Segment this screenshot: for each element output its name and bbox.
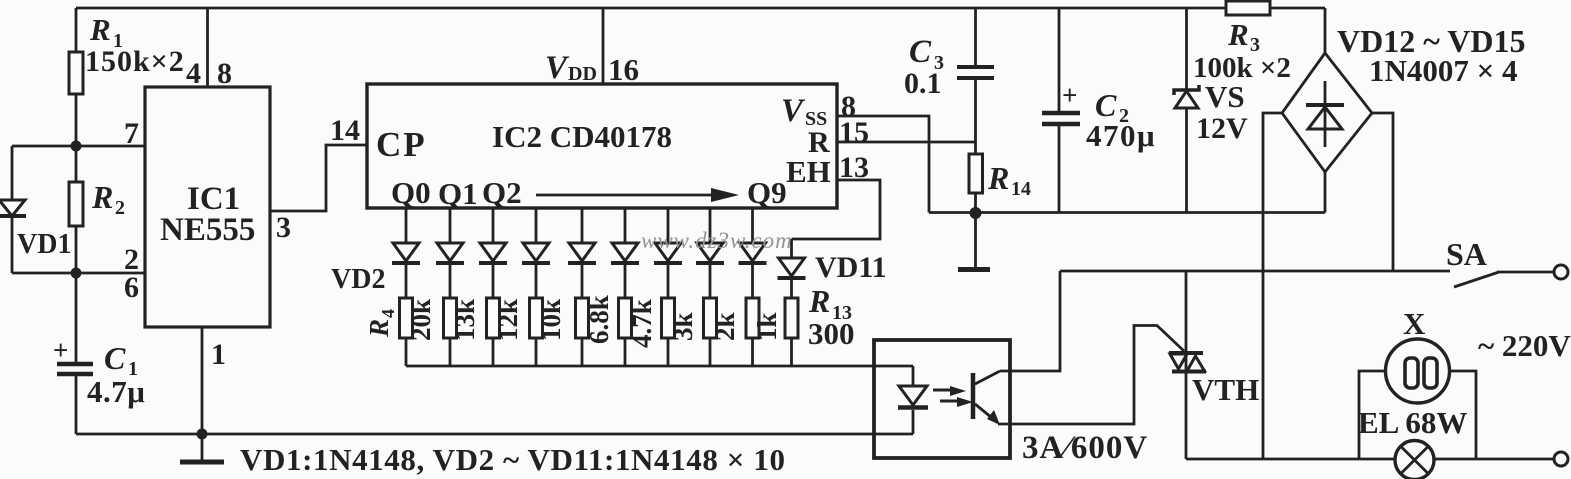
diode VD3 xyxy=(437,243,463,261)
wire VD1 cathode lead xyxy=(11,218,14,273)
wire resistor bottom rail xyxy=(406,365,913,368)
wire C2 bottom lead xyxy=(1058,126,1061,213)
svg-text:R: R xyxy=(91,179,113,215)
svg-text:13: 13 xyxy=(839,151,869,184)
node ground junction xyxy=(197,429,208,440)
svg-text:20k: 20k xyxy=(406,299,436,341)
wire pin15 to R14 xyxy=(837,141,976,144)
wire C1 bottom lead xyxy=(75,376,78,434)
wire VS bottom lead xyxy=(1185,108,1188,213)
svg-text:IC2 CD40178: IC2 CD40178 xyxy=(492,119,672,154)
label 10k xyxy=(536,299,566,341)
wire VD11 top lead xyxy=(790,239,793,258)
wire Q8 stub xyxy=(751,208,754,243)
svg-text:DD: DD xyxy=(568,63,597,85)
svg-text:+: + xyxy=(53,335,68,365)
resistor 13k xyxy=(444,298,457,338)
op-amp IC1 box xyxy=(145,87,270,327)
wire C1 top lead xyxy=(75,273,78,362)
wire pins 4 8 stub xyxy=(206,8,209,87)
svg-text:VD1:1N4148, VD2 ~ VD11:1N4148: VD1:1N4148, VD2 ~ VD11:1N4148 × 10 xyxy=(240,442,786,477)
diode VD2 xyxy=(393,243,419,261)
svg-text:V: V xyxy=(545,50,570,86)
svg-text:300: 300 xyxy=(808,316,855,351)
node mid ground junction xyxy=(970,207,982,219)
svg-text:VD11: VD11 xyxy=(815,251,887,284)
resistor R2 xyxy=(69,182,83,226)
svg-text:VTH: VTH xyxy=(1192,372,1259,407)
zener VS xyxy=(1174,85,1199,95)
svg-text:100k ×2: 100k ×2 xyxy=(1193,52,1291,84)
label 1k xyxy=(752,312,782,341)
svg-text:6: 6 xyxy=(124,271,139,304)
wire Q0 stub xyxy=(405,208,408,243)
bridge VD12-VD15 diamond xyxy=(1282,53,1372,172)
node pin7 junction xyxy=(71,141,82,152)
capacitor C1 xyxy=(57,362,93,367)
label 12k xyxy=(493,299,523,341)
node pin2-6 junction xyxy=(71,268,82,279)
svg-text:16: 16 xyxy=(608,52,639,87)
svg-text:C: C xyxy=(104,340,126,376)
wire Q2 stub xyxy=(492,208,495,243)
diode VD7 xyxy=(612,243,638,261)
capacitor C3 xyxy=(957,65,994,69)
svg-text:NE555: NE555 xyxy=(160,212,255,248)
wire pin3 to CP xyxy=(270,145,367,211)
wire pin1 lead xyxy=(201,327,204,434)
resistor 10k xyxy=(530,298,543,338)
wire socket right xyxy=(1450,371,1477,459)
wire C3 to R14 xyxy=(974,80,977,154)
wire pin8 VSS to ground rail xyxy=(837,116,929,213)
wire Q7 stub xyxy=(709,208,712,243)
wire R2 top lead xyxy=(75,146,78,182)
IC U2 CD40178 box xyxy=(367,84,837,208)
svg-text:4.7k: 4.7k xyxy=(627,299,657,348)
wire VD1 anode lead xyxy=(11,146,14,200)
wire collector out xyxy=(1000,271,1060,371)
svg-text:3: 3 xyxy=(276,211,291,244)
svg-text:2k: 2k xyxy=(710,312,740,341)
svg-text:Q0: Q0 xyxy=(391,175,431,210)
wire VDD stub pin16 xyxy=(602,8,605,84)
wire R2 bottom lead xyxy=(75,226,78,273)
resistor 4.7k xyxy=(619,298,632,338)
svg-text:1: 1 xyxy=(211,338,226,371)
svg-text:12V: 12V xyxy=(1196,112,1248,145)
wire R14 bottom lead xyxy=(974,193,977,213)
wire bottom right xyxy=(1186,458,1395,461)
resistor R3 xyxy=(1226,1,1270,15)
svg-text:15: 15 xyxy=(839,116,869,149)
wire bridge bottom lead xyxy=(1324,172,1327,213)
switch SA xyxy=(1454,272,1499,287)
svg-text:Q2: Q2 xyxy=(482,175,522,210)
lamp EL xyxy=(1395,441,1434,479)
svg-text:X: X xyxy=(1403,306,1426,341)
opto light arrows xyxy=(933,389,956,392)
resistor 6.8k xyxy=(576,298,589,338)
ground left xyxy=(201,434,204,460)
svg-text:R: R xyxy=(987,160,1009,196)
wire Q1 stub xyxy=(449,208,452,243)
svg-text:EL 68W: EL 68W xyxy=(1358,405,1467,440)
label 13k xyxy=(450,299,480,341)
diode VD8 xyxy=(655,243,681,261)
wire C2 top lead xyxy=(1058,8,1061,111)
svg-text:VD1: VD1 xyxy=(17,229,71,260)
svg-text:CP: CP xyxy=(376,125,427,164)
wire ground rail xyxy=(929,211,1325,214)
svg-text:14: 14 xyxy=(330,114,360,147)
terminal right bottom xyxy=(1554,452,1568,466)
resistor 3k xyxy=(662,298,675,338)
wire Q3 stub xyxy=(535,208,538,243)
svg-text:13k: 13k xyxy=(450,299,480,341)
capacitor C2 xyxy=(1042,111,1080,116)
wire rail corner to bridge top xyxy=(1324,8,1327,53)
socket X xyxy=(1386,339,1450,403)
svg-text:10k: 10k xyxy=(536,299,566,341)
wire VS top lead xyxy=(1185,8,1188,89)
svg-text:8: 8 xyxy=(217,57,232,90)
wire VD1 bottom horizontal xyxy=(12,272,145,275)
resistor 2k xyxy=(704,298,717,338)
wire Q5 stub xyxy=(624,208,627,243)
svg-text:R: R xyxy=(89,12,111,47)
svg-text:VD2: VD2 xyxy=(331,264,385,295)
wire bridge right AC xyxy=(1372,113,1393,271)
diode VD11 xyxy=(779,258,805,276)
label 6.8k xyxy=(584,295,614,344)
optocoupler U3 box xyxy=(874,340,1010,458)
resistor 1k xyxy=(746,298,759,338)
label 2k xyxy=(710,312,740,341)
wire pin13 EH to VD11 xyxy=(792,180,881,239)
svg-text:1N4007 × 4: 1N4007 × 4 xyxy=(1369,53,1518,88)
label 4.7k xyxy=(627,299,657,348)
svg-text:VS: VS xyxy=(1205,79,1245,114)
label 20k xyxy=(406,299,436,341)
svg-text:Q9: Q9 xyxy=(747,175,787,210)
svg-text:~ 220V: ~ 220V xyxy=(1478,328,1571,363)
opto phototransistor xyxy=(971,373,976,419)
svg-text:6.8k: 6.8k xyxy=(584,295,614,344)
svg-text:4: 4 xyxy=(186,57,201,90)
bridge inner diode xyxy=(1324,81,1327,147)
svg-text:www.dz3w.com: www.dz3w.com xyxy=(641,228,793,253)
ground mid xyxy=(974,213,977,267)
svg-text:14: 14 xyxy=(1011,178,1031,200)
diode VD10 xyxy=(740,243,766,261)
svg-text:V: V xyxy=(781,93,806,129)
svg-text:3A⁄600V: 3A⁄600V xyxy=(1022,430,1148,466)
svg-text:0.1: 0.1 xyxy=(904,67,942,100)
wire Q6 stub xyxy=(667,208,670,243)
svg-text:+: + xyxy=(1062,80,1077,110)
svg-text:3k: 3k xyxy=(668,312,698,341)
opto LED xyxy=(912,366,915,386)
wire Q4 stub xyxy=(581,208,584,243)
wire R1 bottom lead xyxy=(75,94,78,146)
svg-text:Q1: Q1 xyxy=(438,176,478,211)
resistor R13 300 xyxy=(785,298,798,338)
wire emitter out xyxy=(998,326,1184,425)
diode VD1 xyxy=(0,200,25,216)
wire top supply rail xyxy=(76,7,1325,10)
svg-text:7: 7 xyxy=(124,117,139,150)
svg-text:R: R xyxy=(1227,17,1249,52)
wire SA feed xyxy=(1060,270,1450,273)
resistor R14 xyxy=(969,154,983,193)
wire bridge left AC xyxy=(1263,113,1282,459)
resistor 12k xyxy=(487,298,500,338)
diode VD6 xyxy=(569,243,595,261)
svg-text:4: 4 xyxy=(378,309,398,318)
label 3k xyxy=(668,312,698,341)
svg-text:EH: EH xyxy=(786,154,831,189)
wire pin7 horizontal xyxy=(12,145,145,148)
svg-text:470μ: 470μ xyxy=(1086,118,1156,153)
svg-text:150k×2: 150k×2 xyxy=(85,45,185,78)
svg-text:12k: 12k xyxy=(493,299,523,341)
svg-text:4.7μ: 4.7μ xyxy=(87,374,145,409)
wire bottom return xyxy=(76,433,913,436)
svg-text:C: C xyxy=(909,34,932,70)
diode VD5 xyxy=(523,243,549,261)
wire R1 top lead xyxy=(75,8,78,52)
svg-text:1k: 1k xyxy=(752,312,782,341)
wire socket left xyxy=(1359,371,1386,459)
svg-text:2: 2 xyxy=(115,197,125,219)
svg-text:R: R xyxy=(364,319,394,338)
diode VD4 xyxy=(480,243,506,261)
triac VTH xyxy=(1185,271,1188,459)
svg-text:R: R xyxy=(808,283,830,319)
resistor R4 20k xyxy=(400,298,413,338)
label R4 xyxy=(364,309,398,338)
resistor R1 xyxy=(69,52,83,94)
svg-text:SA: SA xyxy=(1446,236,1487,272)
wire C3 top lead xyxy=(974,8,977,65)
arrow Q0 to Q9 xyxy=(536,194,724,197)
diode VD9 xyxy=(697,243,723,261)
